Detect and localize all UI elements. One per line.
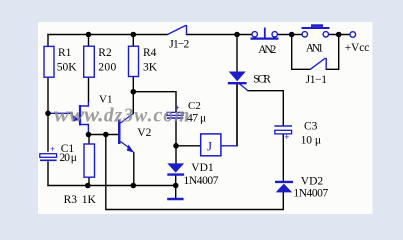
svg-text:SCR: SCR xyxy=(253,74,271,86)
svg-text:3K: 3K xyxy=(143,61,158,73)
junction R4-V2 collector xyxy=(131,89,137,95)
svg-text:V2: V2 xyxy=(137,127,151,139)
wire C1 bottom lead xyxy=(47,162,49,186)
wire SCR anode xyxy=(236,35,238,72)
junction R3 bottom rail xyxy=(85,183,91,189)
wire J1-1 left drop xyxy=(292,35,311,70)
wire AN1-Vcc xyxy=(329,34,351,36)
junction R1-C1-V1 base xyxy=(45,111,51,117)
resistor R4 xyxy=(129,46,139,76)
wire V2 emitter vertical xyxy=(133,153,135,186)
svg-text:200: 200 xyxy=(98,61,116,73)
svg-text:R2: R2 xyxy=(98,47,112,59)
wire AN2-AN1 xyxy=(277,34,302,36)
svg-text:+: + xyxy=(50,145,55,154)
svg-text:+: + xyxy=(284,132,289,142)
wire base rail V1-V2 xyxy=(89,134,119,136)
resistor R3 leads xyxy=(88,135,90,145)
wire V2 collector vertical xyxy=(132,92,134,114)
svg-text:10 μ: 10 μ xyxy=(301,135,321,147)
wire top rail left xyxy=(48,34,167,36)
junction base rail-return xyxy=(103,132,109,138)
junction AN2-AN1 xyxy=(289,32,295,38)
thyristor SCR xyxy=(228,72,249,92)
svg-text:R3: R3 xyxy=(64,194,78,206)
diode VD1 xyxy=(167,163,184,174)
svg-text:20 μ: 20 μ xyxy=(60,152,77,164)
svg-text:AN2: AN2 xyxy=(258,44,276,56)
wire C2 to VD1 node xyxy=(175,119,177,164)
svg-text:J1−2: J1−2 xyxy=(169,38,189,50)
junction VD1 rail xyxy=(173,183,179,189)
resistor R2 leads xyxy=(88,35,90,47)
switch J1-2 xyxy=(168,25,187,35)
svg-text:C3: C3 xyxy=(304,121,318,133)
svg-text:J1−1: J1−1 xyxy=(306,74,328,86)
svg-text:1N4007: 1N4007 xyxy=(184,175,219,187)
junction V2 emitter rail xyxy=(131,183,137,189)
wire R4 node to C2 xyxy=(133,92,176,112)
schematic white area xyxy=(38,22,373,214)
terminal +Vcc xyxy=(350,32,356,38)
transistor V1 xyxy=(48,102,88,135)
svg-text:VD1: VD1 xyxy=(191,162,214,174)
svg-text:+Vcc: +Vcc xyxy=(345,42,370,54)
junction C2-J-VD1 xyxy=(173,143,179,149)
junction V1 emitter-R3 xyxy=(86,132,92,138)
wire lower return line xyxy=(106,135,283,210)
junction SCR anode xyxy=(234,32,240,38)
resistor R1 leads xyxy=(47,35,49,48)
relay J xyxy=(201,134,237,156)
wire J1-1 right drop xyxy=(326,35,339,70)
resistor R3 xyxy=(84,144,95,177)
wire J relay right riser xyxy=(236,85,238,146)
wire SCR cathode down xyxy=(236,85,238,146)
wire C3 to VD2 xyxy=(282,135,284,181)
ground bar xyxy=(167,198,183,201)
svg-text:R1: R1 xyxy=(58,47,72,59)
junction R2 top xyxy=(86,32,92,38)
diode VD2 xyxy=(275,182,293,193)
resistor R2 xyxy=(84,46,95,77)
svg-text:R4: R4 xyxy=(143,47,157,59)
svg-text:50K: 50K xyxy=(57,61,77,73)
capacitor C3 xyxy=(274,126,292,142)
svg-text:J: J xyxy=(207,139,212,154)
wire J relay left lead xyxy=(176,145,201,147)
wire bottom rail xyxy=(48,185,176,187)
pushbutton AN2 xyxy=(251,28,279,39)
wire VD1 to rail xyxy=(175,176,177,186)
pushbutton AN1 xyxy=(302,26,330,37)
switch J1-1 xyxy=(310,58,326,69)
wire SCR gate horizontal xyxy=(248,91,283,125)
wire top rail mid xyxy=(187,34,253,36)
svg-text:AN1: AN1 xyxy=(306,42,324,54)
resistor R4 leads xyxy=(132,35,134,47)
svg-text:1K: 1K xyxy=(82,194,97,206)
transistor V2 xyxy=(118,114,134,153)
capacitor C2 xyxy=(167,104,183,119)
svg-text:VD2: VD2 xyxy=(301,175,324,187)
wire ground stub xyxy=(175,186,177,199)
junction AN1-Vcc xyxy=(336,32,342,38)
resistor R1 xyxy=(44,46,54,77)
svg-text:www.dz3w.com: www.dz3w.com xyxy=(54,102,190,127)
junction R4 top xyxy=(131,32,137,38)
capacitor C1 xyxy=(40,145,57,160)
svg-text:1N4007: 1N4007 xyxy=(293,188,328,200)
